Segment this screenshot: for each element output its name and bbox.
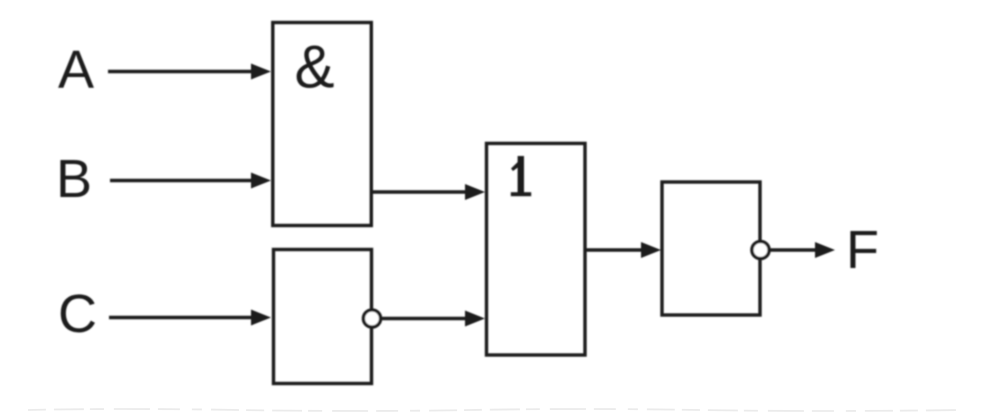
- wire C input arrow: [109, 310, 271, 326]
- wire OR output to NOT input arrow: [585, 242, 661, 258]
- NOT gate U4 inversion bubble: [752, 241, 769, 258]
- NOT gate U2 inversion bubble: [363, 310, 380, 327]
- AND gate U1 box: [273, 23, 372, 226]
- NOT gate U4 box (output stage): [662, 182, 760, 315]
- svg-text:A: A: [58, 40, 94, 100]
- wire A input arrow: [108, 64, 271, 80]
- NOT gate U2 box (input C): [274, 250, 372, 384]
- svg-text:F: F: [846, 220, 879, 280]
- svg-text:B: B: [56, 149, 92, 209]
- wire NOT U2 output to OR input arrow: [381, 311, 485, 327]
- wire B input arrow: [110, 173, 271, 189]
- wire AND output to OR input arrow: [371, 184, 485, 200]
- svg-text:&: &: [295, 34, 335, 101]
- cropped caption text tops at bottom edge: [28, 409, 960, 411]
- svg-text:C: C: [58, 284, 97, 344]
- OR gate U3 label 1: [511, 156, 531, 196]
- OR gate U3 box: [487, 143, 586, 355]
- wire NOT U4 output arrow to F: [769, 242, 835, 258]
